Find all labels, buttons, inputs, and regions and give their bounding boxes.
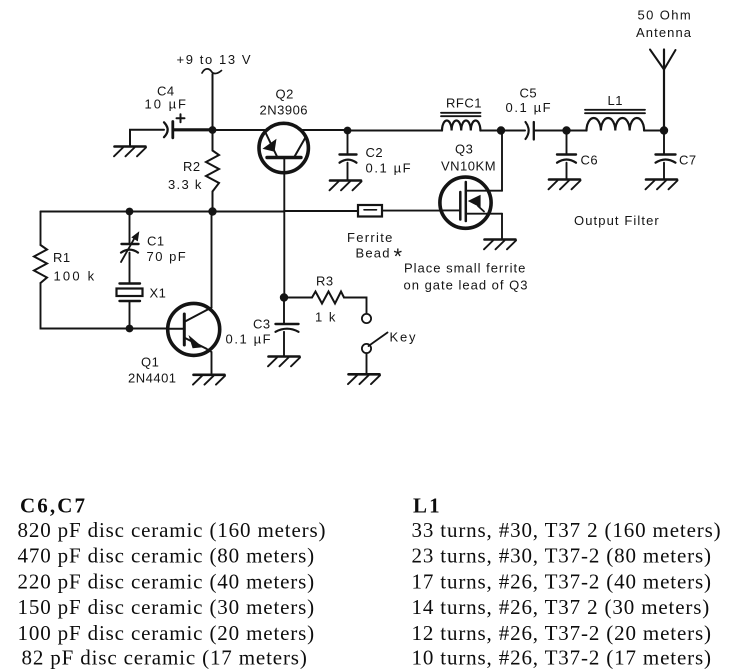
wire X1 to base rail xyxy=(129,301,131,329)
svg-text:100 pF disc ceramic (20 meters: 100 pF disc ceramic (20 meters) xyxy=(18,621,316,645)
capacitor C1 (variable) xyxy=(121,212,187,265)
wire R2 bottom to node xyxy=(212,192,214,212)
svg-text:L1: L1 xyxy=(413,494,442,518)
svg-text:12 turns, #26, T37-2 (20 meter: 12 turns, #26, T37-2 (20 meters) xyxy=(412,621,712,645)
svg-text:50 Ohm: 50 Ohm xyxy=(638,8,693,23)
wire Q2 collector to C2 node xyxy=(301,129,348,131)
svg-text:+9 to 13 V: +9 to 13 V xyxy=(177,52,253,67)
wire C1 to X1 xyxy=(129,253,131,284)
wire Q3 source to ground xyxy=(501,214,503,239)
svg-text:Ferrite: Ferrite xyxy=(347,230,394,245)
wire R2 top xyxy=(212,130,214,151)
power rail +9 to 13 V xyxy=(177,52,253,73)
svg-text:70 pF: 70 pF xyxy=(147,249,188,264)
svg-text:1 k: 1 k xyxy=(315,310,337,325)
capacitor C6 xyxy=(557,131,598,180)
svg-text:10 turns, #26, T37-2 (17 meter: 10 turns, #26, T37-2 (17 meters) xyxy=(412,646,712,669)
svg-text:C6: C6 xyxy=(581,153,599,168)
note: place small ferrite on gate lead of Q3 xyxy=(404,261,529,293)
ground (Q1 emitter) xyxy=(193,375,225,385)
wire ferrite bead to Q3 gate xyxy=(382,210,441,212)
svg-text:220 pF disc ceramic (40 meters: 220 pF disc ceramic (40 meters) xyxy=(18,569,316,593)
label ferrite bead xyxy=(347,230,403,269)
svg-text:C6,C7: C6,C7 xyxy=(20,494,87,518)
svg-text:RFC1: RFC1 xyxy=(446,96,482,111)
wire Q3 drain to node xyxy=(501,130,503,191)
wire junction to Q2 emitter xyxy=(213,129,267,131)
wire node to C5 xyxy=(501,130,525,132)
svg-text:23 turns, #30, T37-2 (80 meter: 23 turns, #30, T37-2 (80 meters) xyxy=(412,544,712,568)
key switch xyxy=(362,314,417,353)
svg-text:10 µF: 10 µF xyxy=(145,97,189,112)
svg-text:X1: X1 xyxy=(150,286,167,301)
svg-text:100 k: 100 k xyxy=(54,269,97,284)
svg-text:C7: C7 xyxy=(679,153,697,168)
resistor R3 xyxy=(312,274,344,325)
svg-text:33 turns, #30, T37 2 (160 mete: 33 turns, #30, T37 2 (160 meters) xyxy=(412,518,722,542)
junction C1 top node xyxy=(126,208,134,216)
junction keying node xyxy=(280,293,288,301)
junction Q3 drain node xyxy=(497,126,505,134)
wire C4 to junction (thick) xyxy=(174,128,213,131)
resistor R2 xyxy=(168,151,219,193)
svg-text:*: * xyxy=(394,244,403,269)
wire R3 to key xyxy=(344,298,367,314)
wire from supply to top rail junction xyxy=(212,74,214,130)
svg-text:Q2: Q2 xyxy=(276,87,294,102)
svg-text:C3: C3 xyxy=(253,317,271,332)
ground (C6) xyxy=(549,180,581,190)
ground (key) xyxy=(348,374,380,384)
capacitor C3 xyxy=(226,298,299,357)
ground (C2) xyxy=(330,181,362,191)
svg-text:150 pF disc ceramic (30 meters: 150 pF disc ceramic (30 meters) xyxy=(18,595,316,619)
ground (Q3 source) xyxy=(484,240,516,250)
capacitor C4 xyxy=(145,84,189,138)
wire oscillator rail (left) xyxy=(41,211,285,213)
svg-text:C2: C2 xyxy=(366,145,384,160)
resistor R1 xyxy=(34,245,96,284)
crystal X1 xyxy=(117,284,167,302)
wire R1 top xyxy=(40,212,42,246)
svg-text:R1: R1 xyxy=(53,250,71,265)
svg-text:2N4401: 2N4401 xyxy=(128,371,177,386)
inductor L1 xyxy=(585,93,645,131)
svg-text:0.1 µF: 0.1 µF xyxy=(366,161,413,176)
svg-text:17 turns, #26, T37-2 (40 meter: 17 turns, #26, T37-2 (40 meters) xyxy=(412,569,712,593)
inductor RFC1 xyxy=(441,96,482,131)
svg-text:Antenna: Antenna xyxy=(636,25,692,40)
svg-text:C1: C1 xyxy=(147,234,165,249)
svg-text:2N3906: 2N3906 xyxy=(260,103,309,118)
svg-text:L1: L1 xyxy=(608,93,623,108)
antenna xyxy=(636,8,692,131)
parts table: L1 column xyxy=(412,494,722,669)
svg-text:Q3: Q3 xyxy=(455,142,473,157)
junction antenna node xyxy=(660,126,668,134)
wire Q1 emitter to ground xyxy=(206,349,212,375)
ground (C7) xyxy=(646,180,678,190)
wire C2 node to RFC1 xyxy=(348,130,443,132)
svg-text:0.1 µF: 0.1 µF xyxy=(226,332,273,347)
svg-text:Key: Key xyxy=(390,330,418,345)
wire C6 node to L1 xyxy=(567,130,587,132)
wire R1 bottom to base rail xyxy=(41,283,169,329)
svg-text:820 pF disc ceramic (160 meter: 820 pF disc ceramic (160 meters) xyxy=(18,518,327,542)
capacitor C2 xyxy=(340,131,413,181)
ferrite bead xyxy=(358,205,382,217)
capacitor C7 xyxy=(656,131,697,180)
svg-text:470 pF disc ceramic (80 meters: 470 pF disc ceramic (80 meters) xyxy=(18,544,316,568)
svg-text:Q1: Q1 xyxy=(141,355,159,370)
wire key to ground xyxy=(366,353,368,374)
svg-text:3.3 k: 3.3 k xyxy=(168,177,203,192)
svg-text:on gate lead of Q3: on gate lead of Q3 xyxy=(404,278,529,293)
svg-text:Output Filter: Output Filter xyxy=(574,213,660,228)
svg-text:VN10KM: VN10KM xyxy=(441,159,496,174)
svg-text:R2: R2 xyxy=(183,159,201,174)
svg-text:Bead: Bead xyxy=(356,246,391,261)
wire C5 to C6 node xyxy=(534,130,567,132)
capacitor C5 xyxy=(506,86,553,140)
wire keying node to R3 xyxy=(284,297,312,299)
junction C6 node xyxy=(562,126,570,134)
ground (C3) xyxy=(268,357,300,367)
svg-text:C5: C5 xyxy=(520,86,538,101)
svg-text:14 turns, #26, T37 2 (30 meter: 14 turns, #26, T37 2 (30 meters) xyxy=(412,595,711,619)
wire C4 left to ground xyxy=(130,130,164,146)
wire Q1 collector up to node xyxy=(211,212,213,308)
parts table: C6,C7 column xyxy=(18,494,327,669)
junction top rail / R2 xyxy=(209,126,217,134)
svg-text:0.1 µF: 0.1 µF xyxy=(506,100,553,115)
svg-text:R3: R3 xyxy=(316,274,334,289)
junction C2 node xyxy=(344,127,352,135)
ground (C4 input) xyxy=(114,147,146,157)
wire Q2 base down to keying node xyxy=(283,158,285,298)
wire L1 to antenna node xyxy=(644,130,664,132)
wire RFC1 to Q3 drain node xyxy=(480,130,501,132)
svg-text:82 pF disc ceramic (17 meters): 82 pF disc ceramic (17 meters) xyxy=(22,646,308,669)
transistor Q2 xyxy=(259,87,308,173)
transistor Q1 xyxy=(128,303,220,385)
wire node to ferrite bead xyxy=(284,210,358,212)
junction X1 base node xyxy=(126,325,134,333)
junction oscillator node xyxy=(208,207,216,215)
svg-text:Place small ferrite: Place small ferrite xyxy=(404,261,526,276)
transistor Q3 xyxy=(440,142,502,229)
